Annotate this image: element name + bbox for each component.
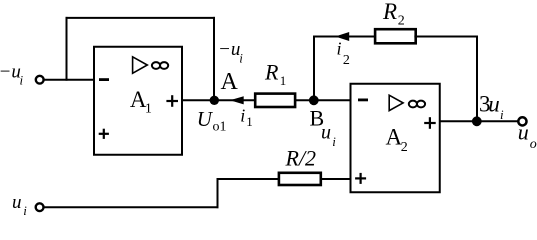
- svg-text:i: i: [20, 72, 24, 87]
- op-amp A2 label: [386, 125, 408, 156]
- terminal -ui input: [36, 76, 44, 84]
- svg-text:o1: o1: [213, 120, 227, 135]
- op-amp A2 output plus sign: [424, 117, 436, 129]
- wire R2 to right vertical: [414, 36, 478, 38]
- svg-text:o: o: [530, 137, 537, 152]
- terminal uo output: [518, 117, 526, 125]
- wire A2 output to terminal: [440, 120, 519, 122]
- node output (3ui): [472, 116, 482, 126]
- terminal ui bottom input: [36, 203, 44, 211]
- arrow i2 (current toward node B): [335, 32, 349, 41]
- svg-text:R: R: [382, 0, 397, 24]
- arrow i1 (current into node A): [230, 96, 244, 104]
- svg-text:R: R: [264, 60, 279, 85]
- wire riser to R/2: [217, 178, 279, 180]
- wire node B up to R2 branch: [313, 36, 315, 102]
- wire A1 output to R1: [182, 99, 255, 101]
- label R2: [382, 0, 405, 29]
- op-amp A1 inverting input minus sign: [99, 78, 109, 81]
- op-amp U1 box A1: [94, 47, 182, 155]
- svg-text:2: 2: [398, 14, 405, 29]
- wire feedback top horizontal: [66, 17, 216, 19]
- wire feedback left vertical: [66, 17, 68, 81]
- svg-text:i: i: [23, 203, 27, 218]
- op-amp U2 box A2: [351, 84, 440, 193]
- op-amp A1 gain symbol (triangle + infinity): [133, 57, 169, 74]
- label ui (at node B): [321, 122, 336, 149]
- resistor R1: [255, 94, 295, 107]
- label -ui (at node A): [218, 39, 243, 66]
- op-amp A2 gain symbol (triangle + infinity): [389, 95, 425, 110]
- label -ui (left input): [0, 61, 24, 87]
- op-amp A1 output plus sign: [166, 95, 178, 107]
- label uo: [518, 119, 537, 152]
- label ui (bottom input): [12, 192, 27, 218]
- wire R/2 to A2 noninverting input: [320, 178, 351, 180]
- svg-text:i: i: [332, 134, 336, 149]
- svg-text:−u: −u: [0, 61, 21, 82]
- svg-text:i: i: [239, 51, 243, 66]
- svg-text:u: u: [321, 122, 331, 144]
- svg-text:U: U: [197, 107, 214, 131]
- label Uo1: [197, 107, 227, 135]
- svg-text:i: i: [500, 107, 504, 122]
- node A: [210, 96, 219, 105]
- svg-text:u: u: [12, 192, 22, 213]
- wire right vertical down to output node: [476, 36, 478, 122]
- wire bottom riser vertical: [217, 178, 219, 208]
- node B: [309, 95, 319, 105]
- svg-text:i: i: [240, 106, 245, 126]
- label R1: [264, 60, 286, 88]
- svg-text:2: 2: [343, 53, 350, 68]
- op-amp A1 label: [130, 87, 152, 117]
- label i1: [240, 106, 253, 130]
- svg-text:u: u: [518, 119, 529, 144]
- svg-text:2: 2: [401, 140, 408, 155]
- svg-text:1: 1: [145, 101, 152, 116]
- svg-text:1: 1: [246, 114, 253, 129]
- svg-text:u: u: [488, 91, 500, 116]
- resistor R2: [375, 29, 416, 43]
- label i2: [337, 38, 350, 68]
- wire feedback right vertical down to node A: [213, 17, 215, 100]
- wire input terminal to A1 minus: [44, 79, 94, 81]
- svg-text:i: i: [337, 38, 342, 58]
- label 3ui: [479, 91, 504, 122]
- wire bottom input horizontal: [44, 206, 219, 208]
- op-amp A2 noninverting input plus sign: [355, 173, 366, 184]
- wire B branch to R2: [313, 36, 375, 38]
- op-amp A2 inverting input minus sign: [358, 99, 368, 102]
- svg-text:1: 1: [280, 73, 287, 88]
- svg-text:A: A: [221, 69, 239, 95]
- svg-text:−u: −u: [218, 39, 240, 60]
- wire R1 to A2 inverting input: [295, 99, 350, 101]
- resistor R/2: [279, 173, 321, 185]
- op-amp A1 noninverting input plus sign: [99, 129, 109, 139]
- svg-text:R/2: R/2: [285, 146, 317, 171]
